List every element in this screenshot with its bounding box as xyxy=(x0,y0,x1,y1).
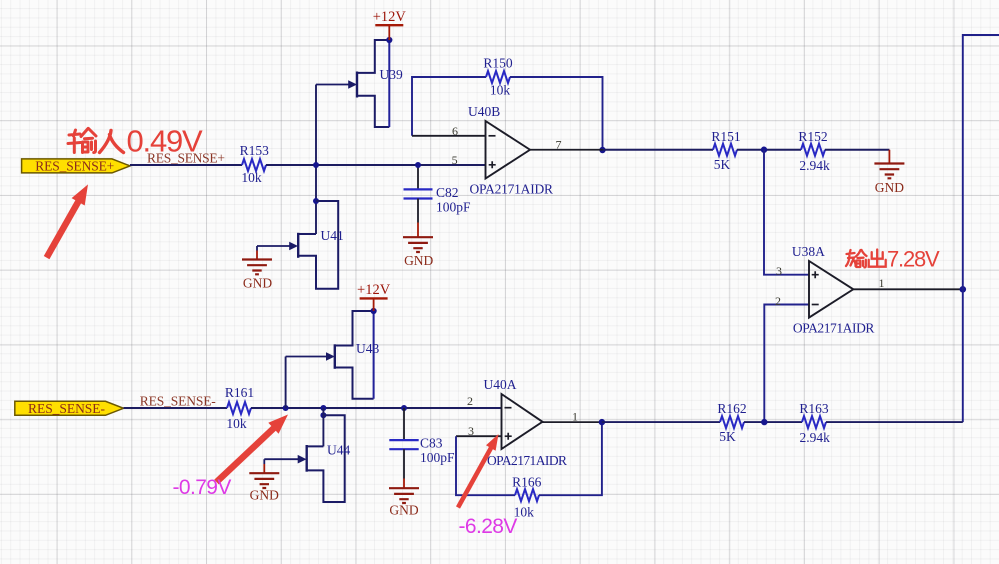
wire R166 to output node xyxy=(539,422,602,495)
resistor R151 xyxy=(711,129,740,172)
svg-text:-6.28V: -6.28V xyxy=(459,515,518,538)
wire R152 to GND xyxy=(825,149,889,151)
svg-text:5K: 5K xyxy=(719,429,736,444)
svg-text:RES_SENSE-: RES_SENSE- xyxy=(28,401,106,416)
wire feedback U40B loop xyxy=(412,77,486,136)
svg-text:RES_SENSE+: RES_SENSE+ xyxy=(35,158,114,173)
node junction R151/R152 xyxy=(761,147,767,153)
svg-text:R153: R153 xyxy=(240,143,270,158)
capacitor C83 xyxy=(389,408,455,479)
svg-text:0.49V: 0.49V xyxy=(127,124,204,159)
wire port+ to R153 xyxy=(130,164,242,166)
resistor R162 xyxy=(717,401,746,444)
svg-text:U41: U41 xyxy=(321,228,344,243)
port RES_SENSE- xyxy=(15,401,124,416)
node +12V junction U39 xyxy=(386,37,392,43)
resistor R153 xyxy=(240,143,270,185)
capacitor C82 xyxy=(404,165,472,223)
power +12V (top) xyxy=(373,9,407,40)
svg-text:R152: R152 xyxy=(798,129,827,144)
svg-text:U43: U43 xyxy=(356,341,379,356)
annotation red arrow at U43 node xyxy=(217,415,289,483)
svg-text:6: 6 xyxy=(452,124,458,138)
transistor U44 xyxy=(264,408,350,502)
svg-text:2.94k: 2.94k xyxy=(799,158,830,173)
svg-text:100pF: 100pF xyxy=(420,450,455,465)
svg-text:7.28V: 7.28V xyxy=(887,246,940,271)
node junction U44 x323 y415 xyxy=(320,412,326,418)
transistor U43 xyxy=(286,311,380,408)
annotation 输出7.28V xyxy=(846,250,886,268)
wire R150 to output xyxy=(510,77,603,150)
svg-text:GND: GND xyxy=(404,253,433,268)
node junction U43 gate xyxy=(283,405,289,411)
svg-text:2: 2 xyxy=(467,394,473,408)
svg-text:+12V: +12V xyxy=(373,9,407,25)
wire R151 to R152 xyxy=(737,149,801,151)
op-amp U40B xyxy=(412,104,603,197)
transistor U41 xyxy=(257,201,344,289)
svg-text:U40B: U40B xyxy=(468,104,500,119)
svg-text:U44: U44 xyxy=(327,443,350,458)
node junction R162/R163 xyxy=(761,419,767,425)
svg-text:5: 5 xyxy=(452,153,458,167)
svg-text:2: 2 xyxy=(775,294,781,308)
svg-text:U39: U39 xyxy=(380,67,403,82)
wire R153 to opamp pin5 xyxy=(266,164,486,166)
svg-text:U40A: U40A xyxy=(484,377,517,392)
node junction main wire x316 xyxy=(313,162,319,168)
wire right rail xyxy=(963,35,999,422)
svg-text:1: 1 xyxy=(572,410,578,424)
svg-text:10k: 10k xyxy=(226,416,247,431)
wire vertical U39 gate / U41 drain xyxy=(315,85,317,235)
svg-text:RES_SENSE-: RES_SENSE- xyxy=(140,393,217,408)
wire port- to R161 xyxy=(124,407,228,409)
wire U40B out to R151 xyxy=(603,149,714,151)
node junction x316 y201 xyxy=(313,198,319,204)
svg-text:-0.79V: -0.79V xyxy=(173,476,232,499)
svg-text:10k: 10k xyxy=(490,83,511,98)
resistor R161 xyxy=(225,385,254,431)
annotation red arrow at port+ xyxy=(47,184,88,257)
op-amp U40A xyxy=(456,377,602,468)
svg-text:R163: R163 xyxy=(799,401,829,416)
svg-text:2.94k: 2.94k xyxy=(800,430,831,445)
svg-text:OPA2171AIDR: OPA2171AIDR xyxy=(487,453,567,468)
ground GND at U44 gate xyxy=(249,459,279,502)
resistor R150 xyxy=(483,56,513,98)
annotation 输入0.49V xyxy=(68,129,96,153)
svg-text:10k: 10k xyxy=(241,170,262,185)
svg-text:1: 1 xyxy=(879,276,885,290)
svg-text:R151: R151 xyxy=(711,129,740,144)
svg-text:R162: R162 xyxy=(717,401,746,416)
power +12V (bottom) xyxy=(357,282,391,311)
svg-text:3: 3 xyxy=(776,264,782,278)
wire R162 node to U38A pin2 xyxy=(764,305,809,423)
svg-text:GND: GND xyxy=(875,180,904,195)
node junction U38A out / right rail xyxy=(960,286,967,293)
svg-text:U38A: U38A xyxy=(792,244,825,259)
node junction U44 x323 main xyxy=(320,405,326,411)
svg-text:100pF: 100pF xyxy=(436,199,471,214)
wire R163 to right rail xyxy=(826,421,963,423)
wire feedback U40A loop xyxy=(456,436,515,495)
svg-text:R161: R161 xyxy=(225,385,254,400)
svg-text:OPA2171AIDR: OPA2171AIDR xyxy=(793,321,875,336)
wire U40A out to R162 xyxy=(602,421,720,423)
ground GND at U41 gate xyxy=(242,246,272,291)
svg-text:5K: 5K xyxy=(714,157,731,172)
ground GND after R152 xyxy=(874,150,904,195)
node +12V junction U43 xyxy=(371,308,377,314)
svg-text:GND: GND xyxy=(389,503,418,518)
svg-text:R150: R150 xyxy=(483,56,513,71)
port RES_SENSE+ xyxy=(22,158,130,173)
ground GND below C83 xyxy=(389,479,419,518)
node junction C82 main wire xyxy=(415,162,421,168)
svg-text:+12V: +12V xyxy=(357,282,391,298)
svg-text:C83: C83 xyxy=(420,436,443,451)
resistor R166 xyxy=(512,475,542,520)
wire R162 to R163 xyxy=(744,421,802,423)
node output junction U40B xyxy=(599,147,605,153)
resistor R152 xyxy=(798,129,830,173)
node junction C83 main wire xyxy=(401,405,407,411)
node junction U40A output xyxy=(599,419,605,425)
svg-text:7: 7 xyxy=(556,138,562,152)
resistor R163 xyxy=(799,401,830,445)
annotation red arrow at U40A pin3 xyxy=(458,434,499,508)
svg-text:3: 3 xyxy=(468,424,474,438)
svg-text:OPA2171AIDR: OPA2171AIDR xyxy=(470,182,554,197)
ground GND below C82 xyxy=(403,223,434,268)
transistor U39 xyxy=(316,40,403,127)
op-amp U38A xyxy=(775,244,963,336)
wire R161 to U40A pin2 xyxy=(251,407,502,409)
svg-text:GND: GND xyxy=(250,488,279,503)
svg-text:C82: C82 xyxy=(436,185,459,200)
svg-text:GND: GND xyxy=(243,276,272,291)
wire R151 node to U38A pin3 xyxy=(764,150,809,275)
svg-text:R166: R166 xyxy=(512,475,542,490)
